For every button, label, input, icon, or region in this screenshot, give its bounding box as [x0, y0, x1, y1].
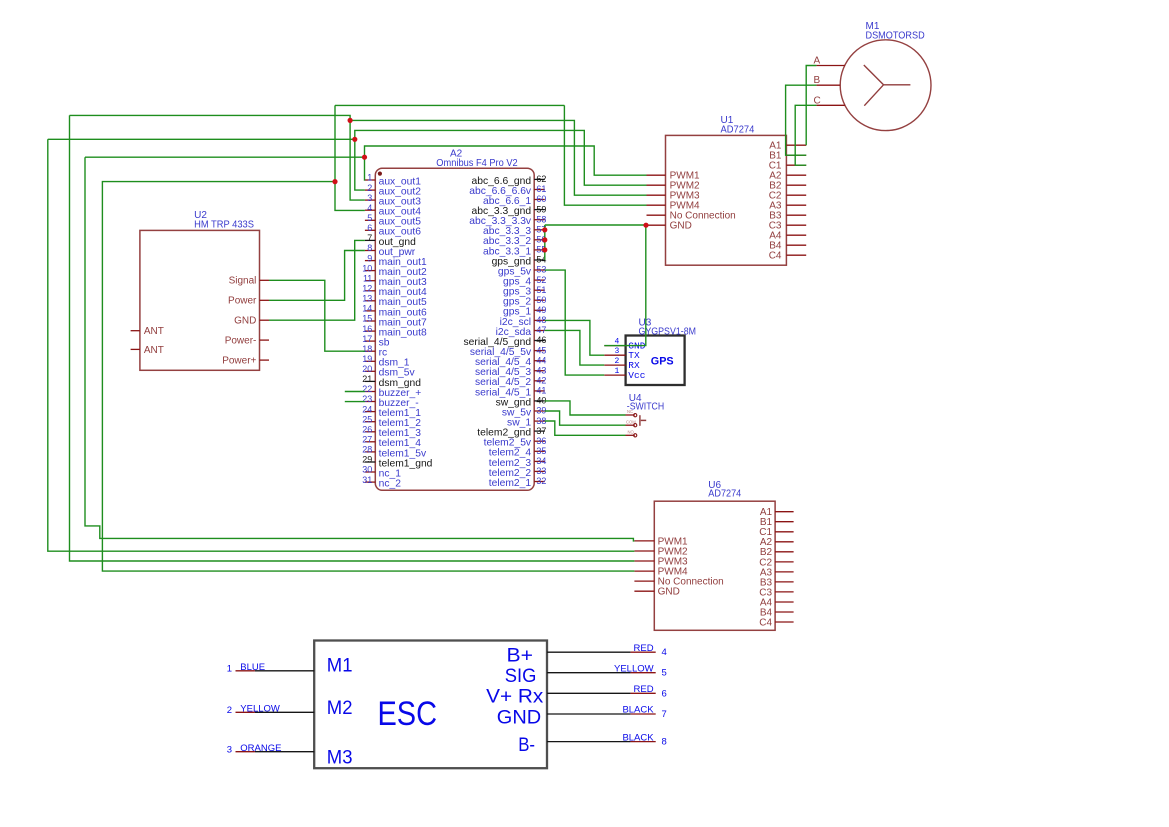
A2 pin 20 dsm_5v — [362, 364, 415, 379]
svg-text:25: 25 — [362, 414, 372, 424]
U1 pin B1 — [769, 151, 806, 162]
U6 pin C4 — [759, 617, 793, 628]
svg-text:61: 61 — [536, 184, 546, 194]
svg-text:10: 10 — [362, 263, 372, 273]
A2 pin 55 abc_3.3_1 — [483, 245, 546, 258]
ESC pin 2 YELLOW — [227, 703, 314, 716]
U2 pin GND — [234, 316, 269, 327]
A2 pin 47 i2c_sda — [496, 325, 547, 338]
svg-text:58: 58 — [536, 214, 546, 224]
U1 pin GND — [647, 221, 692, 232]
A2 pin 8 out_pwr — [365, 243, 416, 258]
wire U2 GND to A2 out_gnd — [269, 240, 365, 320]
A2 pin 50 gps_2 — [503, 295, 546, 308]
A2 pin 54 gps_gnd — [492, 255, 547, 268]
wire aux_out3 right run — [350, 120, 646, 195]
svg-text:5: 5 — [662, 668, 667, 679]
junction dot aux_out1 — [362, 155, 367, 160]
svg-text:36: 36 — [536, 436, 546, 446]
wire sw_5v to switch COM — [545, 411, 626, 425]
svg-text:V+ Rx: V+ Rx — [486, 687, 544, 708]
A2 pin 38 sw_1 — [507, 416, 546, 429]
A2 pin 11 main_out3 — [363, 273, 427, 288]
IC U6 AD7274 body — [654, 501, 775, 630]
junction dot aux_out4 — [332, 179, 337, 184]
svg-text:1: 1 — [614, 367, 619, 376]
svg-text:52: 52 — [536, 275, 546, 285]
svg-text:44: 44 — [536, 355, 546, 365]
IC U2 HM TRP 433S body — [140, 230, 260, 370]
A2 pin 58 abc_3.3_3.3v — [469, 214, 546, 227]
U2 pin Power+ — [222, 356, 269, 367]
wire aux_out2 right run — [355, 130, 647, 185]
svg-text:NO: NO — [628, 430, 635, 435]
svg-text:49: 49 — [536, 305, 546, 315]
svg-text:6: 6 — [367, 223, 372, 233]
wire sw_1 to switch NO — [545, 421, 626, 435]
U2 pin Power — [228, 296, 269, 307]
U1 pin C1 — [769, 161, 806, 172]
svg-text:37: 37 — [536, 426, 546, 436]
svg-text:46: 46 — [536, 335, 546, 345]
svg-text:24: 24 — [362, 404, 372, 414]
A2 pin 40 sw_gnd — [496, 396, 547, 409]
svg-text:26: 26 — [362, 425, 372, 435]
A2 pin 6 aux_out6 — [365, 223, 421, 238]
U2 pin ANT1 — [131, 326, 164, 337]
svg-text:BLACK: BLACK — [622, 705, 654, 716]
U2 pin Power- — [225, 336, 269, 347]
A2 pin 24 telem1_1 — [362, 404, 421, 419]
wire aux_out2 left run — [48, 138, 355, 140]
U6 pin A4 — [760, 597, 794, 608]
svg-text:GND: GND — [497, 707, 541, 728]
svg-text:6: 6 — [662, 688, 667, 699]
wire aux_out1 left run — [85, 156, 365, 158]
wire aux_out3 branch to U6 PWM3 — [70, 115, 635, 561]
U6 pin C3 — [759, 587, 793, 598]
svg-text:14: 14 — [362, 304, 372, 314]
A2 pin 12 main_out4 — [362, 284, 427, 299]
junction dot aux_out2 — [352, 137, 357, 142]
svg-text:12: 12 — [362, 284, 372, 294]
svg-text:BLACK: BLACK — [622, 732, 654, 743]
motor pin C — [814, 95, 845, 106]
svg-text:8: 8 — [662, 737, 667, 748]
svg-text:62: 62 — [536, 174, 546, 184]
svg-text:22: 22 — [362, 384, 372, 394]
U1 pin A2 — [769, 171, 806, 182]
A2 pin 32 telem2_1 — [489, 476, 547, 489]
wire aux_out4 left vertical to A2 pin4 — [335, 105, 365, 210]
A2 pin 29 telem1_gnd — [362, 455, 432, 470]
svg-text:SIG: SIG — [505, 666, 537, 687]
switch U4 lever — [640, 415, 646, 426]
svg-text:2: 2 — [614, 357, 619, 366]
U6 pin B3 — [760, 577, 794, 588]
svg-text:ESC: ESC — [378, 695, 438, 733]
U1 pin PWM2 — [647, 181, 701, 192]
wire aux_out4 right vertical to U1 PWM4 — [564, 105, 646, 205]
svg-text:35: 35 — [536, 446, 546, 456]
U6 pin B4 — [760, 607, 794, 618]
wire aux_out1 branch to U6 PWM1 — [85, 157, 634, 541]
U3 pin 3 TX — [604, 347, 640, 361]
A2 pin 42 serial_4/5_2 — [475, 376, 546, 389]
A2 pin 1 aux_out1 — [365, 173, 421, 188]
ESC pin 7 BLACK — [547, 705, 667, 720]
wire aux_out1 vertical to A2 pin1 — [364, 157, 366, 180]
U6 pin PWM4 — [634, 567, 688, 578]
svg-text:M3: M3 — [327, 748, 353, 769]
A2 pin 22 buzzer_+ — [362, 384, 421, 399]
IC A2 Omnibus F4 Pro V2 body — [375, 168, 534, 490]
svg-text:50: 50 — [536, 295, 546, 305]
wire aux_out3 vertical to A2 pin3 — [350, 120, 365, 200]
svg-text:M1: M1 — [327, 656, 353, 677]
A2 pin 52 gps_4 — [503, 275, 546, 288]
A2 pin 53 gps_5v — [498, 265, 547, 278]
svg-text:HM TRP 433S: HM TRP 433S — [194, 219, 254, 230]
wire sw_gnd to switch NC — [545, 401, 626, 415]
motor pin A — [814, 55, 845, 66]
wire U1 GND down to GPS GND — [604, 225, 646, 345]
svg-text:AD7274: AD7274 — [708, 489, 741, 500]
svg-text:Power+: Power+ — [222, 356, 256, 367]
ESC pin 3 ORANGE — [227, 743, 314, 756]
svg-text:16: 16 — [362, 324, 372, 334]
wire i2c_scl to GPS TX — [545, 320, 605, 355]
svg-text:34: 34 — [536, 456, 546, 466]
svg-text:13: 13 — [362, 294, 372, 304]
svg-text:15: 15 — [362, 314, 372, 324]
A2 pin 39 sw_5v — [502, 406, 547, 419]
U1 pin PWM1 — [647, 171, 701, 182]
switch U4 pin ring COM — [634, 424, 637, 427]
U1 pin C4 — [769, 251, 806, 262]
U1 pin C3 — [769, 221, 806, 232]
A2 pin 57 abc_3.3_3 — [483, 225, 546, 238]
A2 pin 9 main_out1 — [365, 253, 427, 268]
U1 pin PWM4 — [647, 201, 701, 212]
svg-text:20: 20 — [362, 364, 372, 374]
svg-text:YELLOW: YELLOW — [614, 663, 654, 674]
U2 pin Signal — [229, 276, 269, 287]
svg-text:18: 18 — [362, 344, 372, 354]
U6 pin A1 — [760, 507, 794, 518]
A2 pin 44 serial_4/5_4 — [475, 355, 546, 368]
A2 pin 10 main_out2 — [362, 263, 427, 278]
svg-text:B+: B+ — [507, 646, 534, 667]
wire buzzer_- stub — [345, 401, 365, 403]
A2 pin 2 aux_out2 — [365, 183, 421, 198]
svg-text:B-: B- — [518, 735, 535, 756]
svg-text:GYGPSV1-8M: GYGPSV1-8M — [639, 327, 697, 338]
A2 pin 45 serial_4/5_5v — [470, 345, 547, 358]
svg-text:Power-: Power- — [225, 336, 257, 347]
motor pin B — [814, 75, 841, 86]
ESC pin 8 BLACK — [547, 732, 667, 747]
svg-text:RED: RED — [634, 643, 654, 654]
svg-text:Vcc: Vcc — [628, 370, 645, 381]
A2 pin 30 nc_1 — [362, 465, 401, 480]
junction dot aux_out3 — [348, 118, 353, 123]
U2 pin ANT2 — [131, 345, 164, 356]
A2 pin 13 main_out5 — [362, 294, 427, 309]
U6 pin A2 — [760, 537, 794, 548]
U1 pin A4 — [769, 231, 806, 242]
svg-text:42: 42 — [536, 376, 546, 386]
svg-text:4: 4 — [662, 647, 667, 658]
A2 pin 61 abc_6.6_6.6v — [469, 184, 546, 197]
wire U2 Signal to A2 rc — [269, 280, 365, 351]
IC U1 AD7274 body — [666, 135, 787, 265]
A2 pin 4 aux_out4 — [365, 203, 421, 218]
A2 pin 34 telem2_3 — [489, 456, 547, 469]
A2 pin 17 sb — [362, 334, 389, 349]
A2 pin 19 dsm_1 — [362, 354, 409, 369]
A2 pin 48 i2c_scl — [500, 315, 547, 328]
wire i2c_sda to GPS RX — [545, 330, 605, 365]
U6 pin PWM1 — [634, 536, 688, 547]
A2 pin 35 telem2_4 — [489, 446, 547, 459]
A2 pin 21 dsm_gnd — [362, 374, 421, 389]
svg-text:Power: Power — [228, 296, 257, 307]
junction dot A2 pin57 — [542, 227, 547, 232]
ESC pin 1 BLUE — [227, 662, 314, 675]
svg-text:GND: GND — [658, 587, 680, 598]
A2 pin 7 out_gnd — [365, 233, 416, 248]
svg-text:GND: GND — [670, 221, 692, 232]
wire motor B to U1 B1 — [786, 85, 817, 155]
svg-text:GPS: GPS — [651, 356, 674, 368]
motor M1 winding symbol — [864, 65, 911, 106]
svg-text:8: 8 — [367, 243, 372, 253]
A2 pin 43 serial_4/5_3 — [475, 365, 546, 378]
svg-text:AD7274: AD7274 — [721, 125, 755, 136]
switch U4 pin ring NC — [634, 414, 637, 417]
A2 pin 16 main_out8 — [362, 324, 427, 339]
A2 pin 23 buzzer_- — [362, 394, 418, 409]
svg-text:41: 41 — [536, 386, 546, 396]
svg-text:ANT: ANT — [144, 326, 164, 337]
svg-text:17: 17 — [362, 334, 372, 344]
wire aux_out4 branch to U6 PWM4 — [102, 182, 634, 571]
switch U4 pin NC — [626, 409, 635, 415]
A2 pin 60 abc_6.6_1 — [483, 194, 546, 207]
U3 pin 4 GND — [604, 337, 645, 351]
svg-text:60: 60 — [536, 194, 546, 204]
wire A2 pin57 to U1 GND — [545, 224, 647, 226]
A2 pin 18 rc — [362, 344, 387, 359]
wire abc_3.3 pins bus — [544, 225, 546, 260]
A2 pin 37 telem2_gnd — [477, 426, 546, 439]
A2 pin 56 abc_3.3_2 — [483, 235, 546, 248]
wire buzzer_+ stub — [345, 391, 365, 393]
A2 pin 5 aux_out5 — [365, 213, 421, 228]
U1 pin B4 — [769, 241, 806, 252]
svg-text:43: 43 — [536, 365, 546, 375]
svg-text:RED: RED — [634, 684, 654, 695]
A2 pin 28 telem1_5v — [362, 445, 427, 460]
U6 pin A3 — [760, 567, 794, 578]
U6 pin C2 — [759, 557, 793, 568]
ESC pin 4 RED — [547, 643, 667, 658]
A2 pin 26 telem1_3 — [362, 425, 421, 440]
svg-text:29: 29 — [362, 455, 372, 465]
switch U4 pin NO — [626, 430, 635, 436]
ESC body — [314, 641, 547, 769]
svg-text:19: 19 — [362, 354, 372, 364]
svg-text:21: 21 — [362, 374, 372, 384]
U1 pin PWM3 — [647, 191, 701, 202]
svg-text:11: 11 — [363, 273, 372, 283]
ESC pin 5 YELLOW — [547, 663, 667, 678]
svg-text:1: 1 — [367, 173, 372, 183]
U3 pin 1 Vcc — [604, 367, 645, 381]
svg-text:C4: C4 — [759, 617, 772, 628]
svg-text:1: 1 — [227, 664, 232, 675]
svg-text:28: 28 — [362, 445, 372, 455]
svg-text:BLUE: BLUE — [240, 662, 265, 673]
svg-text:7: 7 — [662, 709, 667, 720]
A2 pin 27 telem1_4 — [362, 435, 421, 450]
U6 pin B2 — [760, 547, 794, 558]
A2 pin 41 serial_4/5_1 — [475, 386, 546, 399]
wire U2 Power to A2 out_pwr — [269, 251, 365, 301]
A2 pin 33 telem2_2 — [489, 466, 547, 479]
U6 pin PWM2 — [634, 546, 688, 557]
svg-text:45: 45 — [536, 345, 546, 355]
wire aux_out2 branch to U6 PWM2 — [48, 139, 635, 551]
svg-text:DSMOTORSD: DSMOTORSD — [866, 31, 925, 42]
U1 pin C2 — [769, 191, 806, 202]
A2 pin 49 gps_1 — [503, 305, 546, 318]
svg-text:3: 3 — [367, 193, 372, 203]
svg-text:M2: M2 — [327, 698, 353, 719]
A2 pin 62 abc_6.6_gnd — [472, 174, 547, 187]
svg-text:nc_2: nc_2 — [379, 479, 402, 490]
U1 pin B3 — [769, 211, 806, 222]
svg-text:A: A — [814, 55, 821, 66]
svg-text:3: 3 — [227, 745, 232, 756]
A2 pin 36 telem2_5v — [484, 436, 547, 449]
A2 pin 59 abc_3.3_gnd — [472, 204, 547, 217]
A2 pin 3 aux_out3 — [365, 193, 421, 208]
svg-text:telem2_1: telem2_1 — [489, 478, 532, 489]
svg-text:59: 59 — [536, 204, 546, 214]
A2 pin 25 telem1_2 — [362, 414, 421, 429]
svg-text:32: 32 — [536, 476, 546, 486]
motor M1 body — [840, 40, 931, 131]
svg-text:2: 2 — [367, 183, 372, 193]
svg-text:C4: C4 — [769, 251, 782, 262]
svg-text:Signal: Signal — [229, 276, 257, 287]
U1 pin B2 — [769, 181, 806, 192]
wire aux_out2 vertical to A2 pin2 — [355, 139, 365, 190]
svg-text:2: 2 — [227, 705, 232, 716]
U6 pin PWM3 — [634, 556, 688, 567]
ESC pin 6 RED — [547, 684, 667, 699]
A2 pin 1 marker dot — [378, 172, 382, 176]
wire aux_out4 top run — [335, 104, 564, 106]
wire gps_5v to GPS Vcc — [545, 270, 605, 375]
svg-text:ORANGE: ORANGE — [240, 743, 281, 754]
svg-text:33: 33 — [536, 466, 546, 476]
A2 pin 51 gps_3 — [503, 285, 546, 298]
wire motor C to U1 C1 — [795, 105, 816, 165]
U6 pin C1 — [759, 527, 793, 538]
switch U4 pin COM — [626, 419, 637, 425]
svg-text:51: 51 — [536, 285, 546, 295]
A2 pin 46 serial_4/5_gnd — [464, 335, 547, 348]
U1 pin A1 — [769, 141, 806, 152]
svg-text:7: 7 — [367, 233, 372, 243]
svg-text:9: 9 — [367, 253, 372, 263]
svg-text:GND: GND — [234, 316, 256, 327]
junction dot A2 pin55 — [542, 247, 547, 252]
svg-text:4: 4 — [367, 203, 372, 213]
switch U4 pin ring NO — [634, 434, 637, 437]
U1 pin No Connection — [647, 211, 736, 222]
svg-text:23: 23 — [362, 394, 372, 404]
svg-text:ANT: ANT — [144, 345, 164, 356]
svg-text:30: 30 — [362, 465, 372, 475]
A2 pin 15 main_out7 — [362, 314, 427, 329]
A2 pin 14 main_out6 — [362, 304, 427, 319]
U6 pin GND — [634, 587, 679, 598]
svg-text:YELLOW: YELLOW — [240, 703, 280, 714]
U1 pin A3 — [769, 201, 806, 212]
wire motor A to U1 A1 — [806, 66, 816, 146]
junction dot U1 GND — [643, 223, 648, 228]
U6 pin No Connection — [634, 577, 723, 588]
svg-text:3: 3 — [614, 347, 619, 356]
junction dot A2 pin56 — [542, 237, 547, 242]
wire aux_out1 right run — [365, 146, 647, 175]
IC U3 GYGPSV1-8M body — [626, 336, 685, 386]
svg-text:Omnibus F4 Pro V2: Omnibus F4 Pro V2 — [436, 158, 518, 169]
U6 pin B1 — [760, 517, 794, 528]
A2 pin 31 nc_2 — [362, 475, 401, 490]
svg-text:31: 31 — [362, 475, 372, 485]
svg-text:5: 5 — [367, 213, 372, 223]
wire aux_out3 left run — [70, 115, 351, 120]
svg-text:NC: NC — [627, 409, 633, 414]
U3 pin 2 RX — [604, 357, 640, 371]
svg-text:27: 27 — [362, 435, 372, 445]
